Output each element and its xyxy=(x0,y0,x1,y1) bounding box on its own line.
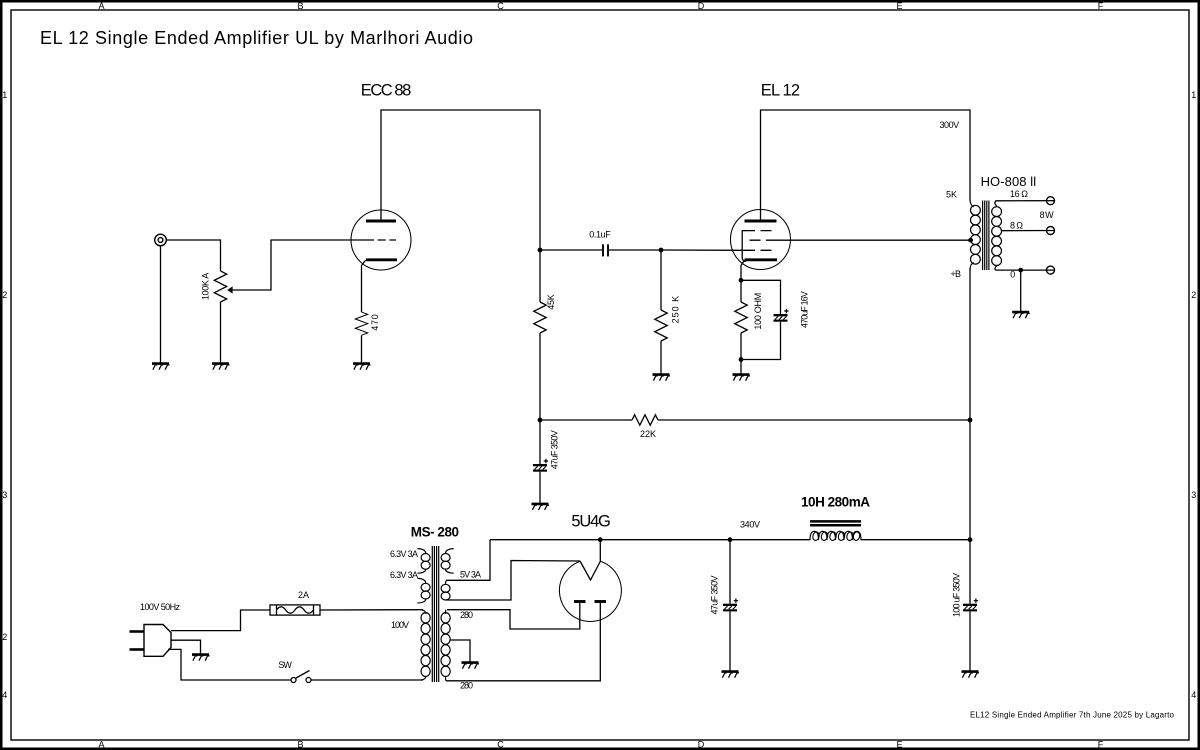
terminal 0 xyxy=(1047,266,1055,274)
ground (250K) xyxy=(653,375,671,381)
wire right anode to HV bottom xyxy=(446,603,600,681)
ground (HV center tap) xyxy=(462,663,480,669)
svg-text:EL 12 Single Ended Amplifier U: EL 12 Single Ended Amplifier UL by Marlh… xyxy=(40,28,473,48)
node UL tap junction dot xyxy=(968,238,973,243)
svg-text:280: 280 xyxy=(460,610,473,620)
svg-text:2: 2 xyxy=(2,290,7,300)
svg-text:100 uF 350V: 100 uF 350V xyxy=(951,573,961,617)
svg-text:SW: SW xyxy=(278,660,292,670)
wire EL12 anode up to OPT primary xyxy=(761,110,971,221)
svg-text:5U4G: 5U4G xyxy=(571,513,611,531)
svg-text:280: 280 xyxy=(460,681,473,691)
EL12 grid g1 (dashed) xyxy=(744,249,777,251)
T1 HV winding 280-0-280 xyxy=(441,610,450,681)
wire left anode to HV top xyxy=(447,603,580,629)
svg-text:6.3V 3A: 6.3V 3A xyxy=(390,549,418,559)
wire choke to +B node xyxy=(861,539,970,541)
EL12 grid g3 (dashed) xyxy=(744,230,777,232)
svg-text:EL 12: EL 12 xyxy=(761,82,800,100)
node +B filter dot xyxy=(968,537,973,542)
wire node C to EL12 grid xyxy=(661,249,744,251)
ground (pot) xyxy=(212,364,230,370)
node C junction dot (grid/250K) xyxy=(659,248,664,253)
svg-text:470: 470 xyxy=(370,314,380,331)
wire node B to 22K xyxy=(540,419,632,421)
svg-text:MS- 280: MS- 280 xyxy=(411,525,459,540)
svg-text:3: 3 xyxy=(2,490,7,500)
svg-text:100 OHM: 100 OHM xyxy=(753,293,763,330)
svg-text:ECC 88: ECC 88 xyxy=(361,82,412,100)
svg-text:6.3V 3A: 6.3V 3A xyxy=(390,570,418,580)
wire node K to 100 OHM xyxy=(740,280,742,302)
wire cap to ground xyxy=(539,472,541,503)
svg-text:8 Ω: 8 Ω xyxy=(1010,220,1023,230)
wire bypass cap to node K2 xyxy=(741,322,781,360)
wire first filter cap to ground xyxy=(729,611,731,670)
node rectifier output dot xyxy=(598,537,603,542)
wire second filter cap to ground xyxy=(969,611,971,670)
transformer T2 primary winding xyxy=(971,205,981,264)
EL12 cathode xyxy=(745,258,778,261)
choke L1 winding xyxy=(810,531,861,540)
ground (OPT 0 tap) xyxy=(1012,312,1029,318)
wire switch to primary bottom xyxy=(311,679,423,681)
ground (plug earth) xyxy=(192,655,210,661)
T1 heater stub winding xyxy=(441,549,454,574)
column letters bottom xyxy=(98,739,1103,749)
svg-text:0: 0 xyxy=(1010,269,1015,279)
terminal 8 ohm xyxy=(1047,227,1055,235)
tube ECC88 envelope xyxy=(351,210,411,270)
svg-text:3: 3 xyxy=(1191,490,1196,500)
svg-text:2: 2 xyxy=(1191,290,1196,300)
resistor 22K xyxy=(632,415,658,425)
wire primary bottom to +B rail xyxy=(970,263,974,270)
wire +B node down to second filter cap xyxy=(969,540,971,604)
svg-text:E: E xyxy=(896,739,902,749)
node K2 junction dot xyxy=(739,357,744,362)
svg-text:+B: +B xyxy=(951,269,962,279)
wire 470 to ground xyxy=(361,335,363,362)
resistor 470 (cathode) xyxy=(355,312,367,335)
svg-text:D: D xyxy=(698,1,705,11)
svg-text:100V 50Hz: 100V 50Hz xyxy=(140,602,181,612)
wire plug live to fuse xyxy=(171,610,270,631)
capacitor 47uF 350V first filter xyxy=(723,599,738,612)
svg-text:250 K: 250 K xyxy=(670,296,680,324)
svg-text:2: 2 xyxy=(2,632,7,642)
wire HV center tap xyxy=(450,640,470,662)
capacitor 470uF 16V bypass xyxy=(774,309,789,322)
node 0-tap junction dot xyxy=(1018,268,1023,273)
svg-text:16 Ω: 16 Ω xyxy=(1010,189,1028,199)
svg-text:2A: 2A xyxy=(298,590,309,600)
wire plug neutral to switch xyxy=(168,649,291,680)
ground (second filter cap) xyxy=(962,672,980,678)
potentiometer VR1 100K A xyxy=(214,271,226,302)
T1 heater winding 6.3V #1 xyxy=(418,549,431,574)
svg-text:4: 4 xyxy=(2,690,7,700)
wire EL12 cathode down xyxy=(741,260,745,280)
wire 0 tap to ground xyxy=(1020,270,1022,311)
row numbers left xyxy=(2,90,7,700)
transformer T2 core xyxy=(983,201,989,271)
ground (ECC88 cathode) xyxy=(353,364,371,370)
svg-text:100K A: 100K A xyxy=(200,273,210,300)
svg-text:22K: 22K xyxy=(640,429,656,439)
node B junction dot (45K/22K/cap) xyxy=(538,418,543,423)
wire cap to grid node xyxy=(609,249,661,251)
svg-text:100V: 100V xyxy=(391,620,409,630)
svg-text:E: E xyxy=(896,1,902,11)
svg-text:10H 280mA: 10H 280mA xyxy=(801,495,870,510)
5U4G anode plates xyxy=(574,600,606,603)
wire EL12 g2 to OPT UL tap xyxy=(777,239,970,241)
node A junction dot (anode/45K/cap) xyxy=(538,248,543,253)
wire 8 ohm tap xyxy=(1001,230,1054,232)
terminal 16 ohm xyxy=(1047,197,1055,205)
svg-text:B: B xyxy=(297,739,303,749)
wire pot bottom to ground xyxy=(220,302,222,363)
svg-text:D: D xyxy=(698,739,705,749)
wire 16 ohm tap xyxy=(995,201,1055,207)
switch SW xyxy=(291,671,311,683)
resistor 100 OHM xyxy=(735,302,747,333)
wire jack to pot top node xyxy=(166,240,220,271)
row numbers right xyxy=(1191,90,1196,700)
svg-text:300V: 300V xyxy=(940,120,960,130)
choke L1 core xyxy=(810,521,861,525)
transformer T1 core xyxy=(432,546,438,682)
ground (100 OHM) xyxy=(733,375,751,381)
resistor 250 K xyxy=(655,310,667,341)
svg-text:470uF 16V: 470uF 16V xyxy=(799,291,809,328)
wire node A to coupling cap xyxy=(540,249,602,251)
svg-text:C: C xyxy=(497,1,504,11)
wire 0 tap xyxy=(995,265,1055,270)
tube EL12 envelope xyxy=(731,210,791,270)
svg-text:1: 1 xyxy=(2,90,7,100)
wire jack down to ground xyxy=(160,246,162,363)
svg-text:4: 4 xyxy=(1191,690,1196,700)
wire plug earth to ground xyxy=(171,640,201,653)
potentiometer wiper arrow xyxy=(227,286,232,293)
svg-text:A: A xyxy=(98,739,104,749)
svg-text:8 W: 8 W xyxy=(1040,210,1055,220)
AC plug P1 xyxy=(130,625,172,657)
wire node K2 to ground xyxy=(740,360,742,374)
wire 340V node down to first filter cap xyxy=(729,540,731,604)
svg-text:5V 3A: 5V 3A xyxy=(460,570,481,580)
node +B rail junction dot xyxy=(968,418,973,423)
svg-text:47uF 350V: 47uF 350V xyxy=(710,576,720,615)
wire node C to 250K xyxy=(660,250,662,310)
svg-text:F: F xyxy=(1098,1,1104,11)
EL12 anode plate xyxy=(745,220,777,223)
node 340V dot xyxy=(728,537,733,542)
svg-text:47uF 350V: 47uF 350V xyxy=(549,430,559,469)
svg-text:EL12 Single Ended Amplifier 7t: EL12 Single Ended Amplifier 7th June 202… xyxy=(970,711,1175,720)
wire 22K to +B rail xyxy=(658,419,970,421)
wire 5V/rectifier node to choke xyxy=(490,539,810,541)
tube 5U4G envelope xyxy=(559,561,621,621)
transformer T2 secondary winding xyxy=(992,207,1002,266)
svg-text:0.1uF: 0.1uF xyxy=(589,230,611,240)
svg-text:5K: 5K xyxy=(946,189,957,199)
wire left filament to 5V winding xyxy=(447,561,580,601)
column letters top xyxy=(98,1,1103,11)
wire ECC88 anode up and over to 45K node xyxy=(381,110,540,250)
svg-text:1: 1 xyxy=(1191,90,1196,100)
svg-text:HO-808 ll: HO-808 ll xyxy=(981,174,1037,189)
wire 45K to node B xyxy=(539,333,541,420)
svg-text:F: F xyxy=(1098,739,1104,749)
choke loop crossings xyxy=(812,531,861,541)
wire right filament to B+ node xyxy=(599,540,601,561)
resistor 45K xyxy=(534,302,546,333)
ground (first filter cap) xyxy=(722,672,740,678)
wire node K to bypass cap xyxy=(741,280,781,314)
capacitor 0.1uF coupling xyxy=(603,244,608,256)
wire 250K to ground xyxy=(660,341,662,374)
5U4G filament xyxy=(580,561,601,580)
wire 100 OHM to node K2 xyxy=(740,333,742,360)
wire 5V top lead to filament rail xyxy=(446,540,490,581)
T1 primary winding 100V xyxy=(421,610,430,680)
wire node B down to decoupling cap xyxy=(539,420,541,464)
svg-text:A: A xyxy=(98,1,104,11)
ground (input jack) xyxy=(152,364,170,370)
svg-text:45K: 45K xyxy=(546,294,556,310)
T1 heater winding 6.3V #2 xyxy=(418,578,431,603)
wire node A down to 45K xyxy=(539,250,541,302)
wire wiper to ECC88 grid xyxy=(232,240,366,290)
svg-text:C: C xyxy=(497,739,504,749)
wire ECC88 cathode down xyxy=(362,260,366,312)
svg-text:B: B xyxy=(297,1,303,11)
ground (47uF decoupling) xyxy=(532,504,550,510)
capacitor 47uF 350V decoupling xyxy=(533,459,548,472)
svg-text:340V: 340V xyxy=(740,520,760,530)
EL12 grid g2 (dashed) xyxy=(744,239,777,241)
ECC88 grid (dashed) xyxy=(366,239,396,241)
node K junction dot xyxy=(739,278,744,283)
ECC88 cathode xyxy=(366,258,397,261)
input jack J1 xyxy=(155,234,167,246)
wire fuse to primary top xyxy=(320,609,423,611)
ECC88 anode plate xyxy=(366,220,396,223)
fuse F1 2A xyxy=(270,605,320,615)
EL12 g3-cathode tie xyxy=(742,231,746,262)
T1 rectifier heater winding 5V xyxy=(441,580,450,600)
capacitor 100uF 350V second filter xyxy=(963,599,978,612)
